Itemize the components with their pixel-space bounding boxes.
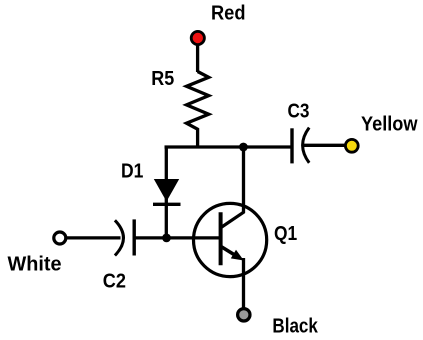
svg-text:Red: Red <box>211 2 246 24</box>
svg-text:R5: R5 <box>151 68 174 90</box>
svg-text:Yellow: Yellow <box>361 113 418 135</box>
svg-text:Q1: Q1 <box>274 223 297 245</box>
svg-text:C3: C3 <box>288 101 310 123</box>
svg-text:C2: C2 <box>103 271 126 293</box>
svg-text:Black: Black <box>272 315 318 337</box>
svg-text:D1: D1 <box>121 160 143 182</box>
svg-text:White: White <box>8 253 62 275</box>
